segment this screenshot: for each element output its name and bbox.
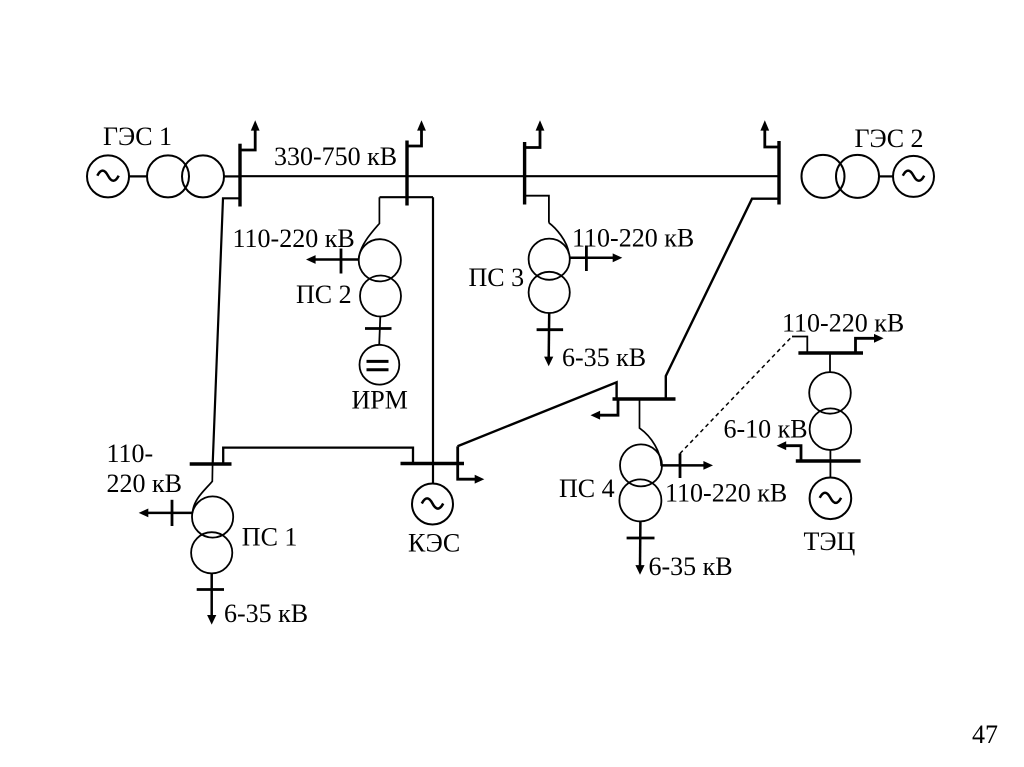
transformer ГЭС 2 [802,155,880,198]
transformer ПС 3 [529,239,570,313]
wire ГЭС1 transformer to bus [224,175,240,177]
load arrow ПС4 6-35 кВ [627,521,655,574]
wire ТЭЦ bus lead-in [792,337,807,354]
busbar ПС1 [190,462,232,465]
static var source ИРМ [360,345,400,385]
svg-text:ПС 4: ПС 4 [559,474,615,503]
svg-text:6-10 кВ: 6-10 кВ [724,415,808,444]
wire node A to ПС1 (long slant) [213,198,240,463]
svg-text:220 кВ: 220 кВ [107,469,182,498]
load arrow ПС4 110-220 кВ [662,454,713,479]
svg-text:6-35 кВ: 6-35 кВ [224,599,308,628]
wire to ПС4 transformer (curved drop) [640,399,662,466]
svg-text:ИРМ: ИРМ [352,385,408,414]
svg-text:330-750 кВ: 330-750 кВ [274,142,397,171]
wire ИРМ column to КЭС (long vertical) [432,197,434,483]
load arrow ПС3 6-35 кВ [537,313,564,366]
svg-text:47: 47 [972,720,998,749]
wire link ПС1 bus to КЭС bus [223,448,413,464]
svg-text:ПС 2: ПС 2 [296,280,352,309]
wire to ПС1 transformer (curved drop) [193,464,213,513]
feeder arrow at КЭС bus [458,446,485,483]
wire ГЭС1 gen to transformer [129,175,147,177]
wire ГЭС2 to ПС4 (diagonal) [666,199,779,399]
feeder arrow at ТЭЦ bus [856,334,884,353]
wire node B down-step [380,196,434,198]
busbar ПС4 [613,397,676,400]
load arrow ПС2 110-220 кВ [306,249,359,274]
busbar node A (ГЭС1, 330-750) [238,144,241,207]
busbar ТЭЦ 110-220 [798,351,863,354]
wire node C down-step to ПС3 [525,196,569,254]
svg-text:ГЭС 2: ГЭС 2 [855,124,924,153]
wire ТЭЦ bus to transformer [829,353,831,372]
feeder arrow at node C [525,120,545,147]
transformer ПС 4 [619,444,662,521]
svg-text:КЭС: КЭС [408,529,460,558]
load arrow ПС1 110-220 кВ [139,500,193,526]
transformer ГЭС 1 [147,155,224,197]
wire dashed ПС4 to ТЭЦ [680,337,792,454]
feeder arrow at node B [407,120,426,146]
generator ГЭС 2 [893,156,934,197]
wire 330-750 кВ main line [240,175,779,177]
transformer ПС 2 [359,239,401,316]
load arrow ПС3 110-220 кВ [570,246,623,272]
svg-text:ГЭС 1: ГЭС 1 [103,122,172,151]
feeder arrow at ПС4 bus [591,399,619,420]
svg-text:110-220 кВ: 110-220 кВ [233,224,355,253]
svg-text:110-220 кВ: 110-220 кВ [572,224,694,253]
wire ТЭЦ transformer to 6-10 bus [829,450,831,478]
busbar КЭС [401,462,465,465]
wire ГЭС2 transformer to gen [879,175,893,177]
feeder arrow at node A [240,120,260,150]
transformer ТЭЦ [809,372,851,450]
svg-text:6-35 кВ: 6-35 кВ [562,343,646,372]
transformer ПС 1 [191,496,233,573]
svg-text:110-220 кВ: 110-220 кВ [782,309,904,338]
generator ТЭЦ [810,478,852,520]
svg-text:ПС 3: ПС 3 [469,263,525,292]
load arrow ПС1 6-35 кВ [197,573,224,624]
wire КЭС to ПС4 (diagonal) [458,382,617,446]
svg-text:6-35 кВ: 6-35 кВ [649,552,733,581]
wire to ПС2 transformer (curved drop) [359,197,380,259]
svg-text:110-220 кВ: 110-220 кВ [665,479,787,508]
busbar ТЭЦ 6-10 [796,459,861,462]
busbar node D (ГЭС2) [777,141,780,205]
generator КЭС [412,484,453,525]
svg-text:ПС 1: ПС 1 [242,523,298,552]
busbar node C (ПС3 tap) [523,142,526,205]
svg-text:110-: 110- [107,439,154,468]
svg-text:ТЭЦ: ТЭЦ [804,527,856,556]
feeder arrow at ТЭЦ 6-10 bus [777,441,801,461]
feeder arrow at node D [760,120,779,147]
wire ПС2 to ИРМ [365,317,392,345]
generator ГЭС 1 [87,155,129,197]
busbar node B (ПС2 tap) [405,141,408,206]
